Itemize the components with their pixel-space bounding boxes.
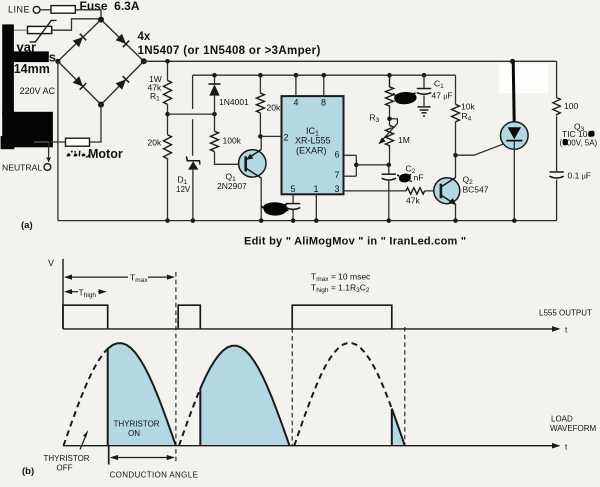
wire thyristor cathode to rail: [513, 141, 515, 221]
resistor 100k: [211, 131, 219, 151]
V axis: [62, 259, 64, 329]
ground symbol C1: [418, 107, 431, 117]
svg-text:(b): (b): [22, 466, 34, 477]
hump1 solid curve: [108, 343, 176, 446]
label 10k R4: [461, 102, 475, 123]
arrow to neutral: [46, 157, 51, 163]
resistor R1 47k 1W: [164, 80, 172, 104]
capacitor C1 47uF: [417, 75, 431, 106]
pin 3: [335, 184, 407, 194]
wire R1 to node A: [167, 104, 169, 134]
t axis arrow L555: [552, 326, 561, 332]
wire pin5 cap to rail: [292, 209, 294, 220]
resistor 20k pin2 branch: [256, 93, 264, 113]
op-amp/timer IC1 XR-L555: [282, 96, 344, 194]
wire R4 branch: [455, 75, 457, 155]
node thyristor anode top: [510, 59, 515, 64]
svg-text:8: 8: [321, 98, 326, 108]
svg-text:Motor: Motor: [88, 147, 123, 161]
L555 pulse 3: [292, 305, 392, 329]
scribble blob pin5 value: [262, 203, 289, 215]
node R4 bottom: [453, 153, 458, 158]
node Q2 emitter rail: [453, 218, 458, 223]
node pin5 rail: [291, 218, 296, 223]
load baseline: [63, 445, 557, 447]
svg-text:V: V: [48, 258, 54, 268]
node bridge right: [141, 58, 147, 64]
svg-text:4x: 4x: [138, 31, 151, 43]
bridge diode D-BR: [116, 76, 130, 90]
svg-text:47 µF: 47 µF: [432, 91, 453, 101]
svg-text:0.1 µF: 0.1 µF: [568, 171, 591, 181]
transistor Q2 BC547: [434, 178, 460, 206]
svg-text:20k: 20k: [267, 103, 281, 113]
svg-text:Edit by " AliMogMov " in " Ira: Edit by " AliMogMov " in " IranLed.com ": [244, 235, 466, 247]
wire top rail DC+: [144, 60, 557, 62]
svg-text:2N2907: 2N2907: [217, 181, 247, 191]
diode 1N4001: [209, 75, 221, 114]
svg-text:LOAD: LOAD: [551, 414, 573, 423]
wire gate: [456, 143, 506, 155]
L555 pulse 2: [178, 305, 200, 329]
wire Q1 emitter up to node C: [260, 136, 262, 150]
wire node C to pin 2: [260, 135, 281, 137]
wire stub in blob: [34, 141, 49, 143]
node bridge bottom: [98, 102, 104, 108]
label 1W 47k R1: [148, 74, 162, 103]
wire 100k to Q1 base: [215, 152, 241, 165]
svg-text:THYRISTOR: THYRISTOR: [114, 420, 160, 429]
wire LINE to fuse: [40, 9, 51, 11]
node 20k top: [258, 73, 263, 78]
svg-text:NEUTRAL: NEUTRAL: [2, 162, 42, 172]
redaction blob (black): [1, 24, 53, 149]
svg-text:var: var: [17, 39, 37, 54]
load waveform fill hump1: [108, 343, 176, 446]
hump2 dashed rise: [179, 389, 200, 446]
pin 6: [335, 149, 357, 159]
label THYRISTOR OFF: [44, 454, 90, 472]
transistor Q1 2N2907: [239, 150, 266, 179]
svg-text:Fuse 6.3A: Fuse 6.3A: [80, 0, 140, 13]
wire pins 6-7 tie: [355, 155, 357, 176]
svg-text:1M: 1M: [398, 135, 410, 145]
node zener rail: [191, 218, 196, 223]
capacitor bypass pin5: [286, 204, 300, 210]
wire Q1 collector down to rail: [260, 178, 262, 221]
wire node to C2: [388, 165, 390, 174]
node bridge left: [55, 59, 60, 64]
wire thyristor anode (bold): [513, 61, 514, 122]
capacitor 0.1uF: [549, 172, 563, 178]
node C (pin2 emitter 20k): [258, 134, 263, 139]
motor M: [66, 138, 90, 146]
svg-text:XR-L555: XR-L555: [295, 136, 331, 146]
pin 1: [314, 184, 319, 223]
node R1 top: [165, 59, 170, 64]
svg-text:BC547: BC547: [463, 184, 489, 194]
svg-text:4: 4: [294, 98, 299, 108]
label Q1 2N2907: [217, 172, 247, 191]
wire blob to varistor: [3, 29, 28, 31]
svg-text:CONDUCTION ANGLE: CONDUCTION ANGLE: [110, 471, 199, 480]
svg-text:5: 5: [291, 184, 296, 194]
resistor above R3 (value hidden): [386, 75, 394, 108]
dashed guide x=292.2: [291, 305, 293, 446]
thyristor off pointer arrow: [80, 430, 88, 450]
node C1 top: [422, 73, 427, 78]
svg-text:1N5407 (or 1N5408 or >3Amper): 1N5407 (or 1N5408 or >3Amper): [138, 45, 321, 57]
wire Q2 collector to node: [455, 155, 457, 178]
svg-text:20k: 20k: [148, 138, 162, 148]
node R3 branch top: [387, 73, 392, 78]
wire 47k to Q2 base: [425, 190, 441, 192]
node Q1 collector rail: [259, 218, 264, 223]
label D1 12V: [176, 175, 191, 194]
svg-text:1N4001: 1N4001: [219, 97, 249, 107]
white patch: [499, 64, 548, 93]
bridge rectifier wires: [58, 20, 144, 105]
svg-text:ON: ON: [128, 429, 140, 438]
conduction angle arrow: [110, 455, 175, 460]
wire fuse to bridge top: [75, 10, 101, 20]
svg-text:s: s: [49, 49, 56, 64]
t axis arrow load: [552, 443, 561, 449]
wire zener to bottom rail: [192, 170, 194, 221]
node A junction: [165, 112, 170, 117]
svg-text:LINE: LINE: [8, 5, 30, 15]
svg-text:WAVEFORM: WAVEFORM: [550, 424, 597, 433]
svg-text:47k: 47k: [406, 196, 420, 206]
wire varistor to bridge top: [52, 19, 101, 30]
svg-text:14mm: 14mm: [14, 62, 50, 76]
wire bottom rail DC-: [58, 220, 557, 222]
svg-text:7: 7: [335, 170, 340, 180]
dashed guide x=175.9: [175, 272, 177, 464]
wire zener branch upper (crossover gap): [192, 75, 194, 156]
capacitor C2: [382, 174, 396, 180]
svg-text:3: 3: [335, 184, 340, 194]
resistor 100 ohm snubber: [553, 98, 561, 116]
node 6-7: [354, 163, 359, 168]
wire bridge bottom to motor: [90, 105, 102, 142]
L555 output baseline: [63, 328, 557, 330]
node thyristor rail: [512, 218, 517, 223]
Tmax dimension arrow: [64, 273, 175, 285]
svg-text:100: 100: [564, 101, 578, 111]
dashed guide x=404.8: [404, 327, 406, 446]
label Q3 TIC106: [560, 122, 598, 148]
scribble blob TIC106 suffix: [589, 131, 595, 137]
varistor VAR: [28, 20, 57, 42]
fuse F1 6.3A: [51, 6, 75, 14]
load waveform fill hump3: [392, 409, 405, 446]
svg-text:(: (: [560, 138, 563, 147]
load waveform fill hump2: [200, 346, 289, 446]
svg-text:THYRISTOR: THYRISTOR: [44, 454, 90, 463]
resistor 20k lower left: [164, 135, 172, 159]
wire 12V rail: [193, 74, 456, 76]
svg-text:nF: nF: [414, 172, 424, 182]
resistor R4 10k: [452, 104, 460, 122]
conduction angle tick left: [108, 446, 110, 465]
hump1 dashed rise: [64, 349, 108, 446]
svg-text:100k: 100k: [223, 136, 242, 146]
wire node A to node B: [168, 113, 215, 115]
pin 5: [291, 184, 296, 203]
svg-text:1: 1: [314, 184, 319, 194]
label THYRISTOR ON: [114, 420, 160, 439]
bridge diode D-TR: [116, 34, 130, 48]
hump2 solid curve: [200, 346, 289, 446]
wire B to 100k: [214, 114, 216, 131]
wire R1 branch top: [167, 61, 169, 80]
hump3 dashed curve: [294, 343, 392, 446]
node C2 rail: [387, 218, 392, 223]
svg-text:L555 OUTPUT: L555 OUTPUT: [539, 309, 592, 318]
L555 pulse 1: [63, 305, 108, 329]
node 1N4001 rail: [212, 73, 217, 78]
wire Q2 emitter to rail: [455, 204, 457, 221]
thyristor Q3 TIC106: [501, 122, 529, 150]
node bridge top: [98, 17, 104, 23]
resistor 47k base: [406, 188, 425, 194]
terminal NEUTRAL: [2, 162, 51, 172]
Thigh dimension arrow: [64, 287, 107, 299]
node pot top: [387, 117, 392, 122]
bridge diode D-TL: [73, 34, 87, 48]
pin 8: [321, 73, 326, 108]
svg-text:6: 6: [335, 149, 340, 159]
scribble blob C2 value: [397, 174, 412, 181]
hump3 solid tail: [392, 409, 405, 446]
wire C2 to rail: [388, 180, 390, 221]
pin 4: [294, 73, 299, 108]
label Motor (persian): [67, 151, 90, 158]
node B junction: [212, 112, 217, 117]
wire right edge branch: [556, 61, 558, 220]
svg-text:OFF: OFF: [57, 464, 73, 473]
potentiometer R3 1M: [378, 119, 397, 149]
bridge diode D-BL: [73, 76, 87, 90]
terminal LINE: [8, 5, 40, 15]
svg-text:12V: 12V: [176, 185, 191, 194]
node 20k rail: [165, 218, 170, 223]
svg-text:00V, 5A): 00V, 5A): [567, 138, 598, 147]
svg-text:220V AC: 220V AC: [20, 86, 56, 96]
wire to pot junction: [389, 106, 391, 125]
scribble blob resistor value: [393, 93, 416, 103]
wire motor to neutral: [49, 142, 66, 159]
wire bridge left to bottom rail: [57, 61, 59, 220]
svg-text:(a): (a): [21, 220, 33, 231]
node C2 top: [387, 163, 392, 168]
svg-text:(EXAR): (EXAR): [296, 146, 327, 156]
wire 6-7 node to C2 node: [356, 164, 389, 166]
label LOAD WAVEFORM: [550, 414, 597, 433]
wire 20k branch: [259, 75, 261, 136]
pin 7: [335, 170, 357, 180]
svg-text:2: 2: [284, 132, 289, 142]
wire 20k to bottom rail: [167, 158, 169, 220]
label Q2 BC547: [463, 175, 489, 195]
scribble blob 500V digit: [563, 139, 568, 145]
zener D1 12V: [186, 156, 200, 169]
wire pot to C2 node: [389, 149, 391, 165]
